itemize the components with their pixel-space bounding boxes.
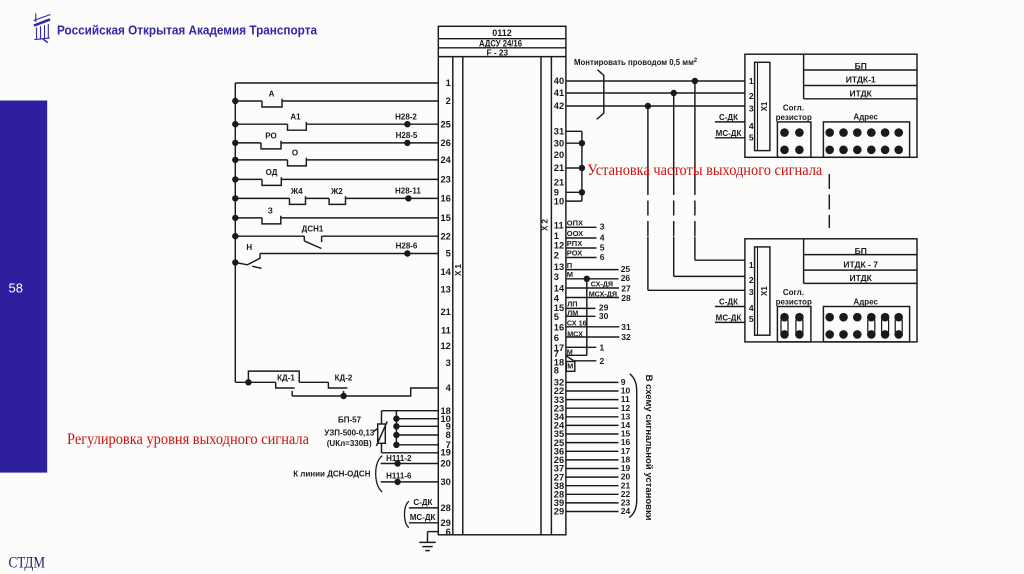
svg-text:ЛМ: ЛМ: [567, 309, 578, 318]
tie М rail down to pin7 row: [566, 279, 587, 356]
svg-text:2: 2: [446, 96, 451, 106]
wire row З to X1: [232, 215, 438, 224]
svg-text:4: 4: [749, 121, 754, 131]
module ИТДК - 7 outline: [745, 239, 917, 342]
svg-text:28: 28: [440, 503, 450, 513]
output row М wire 26: [566, 270, 631, 283]
node Н28-2: [395, 112, 417, 127]
svg-text:30: 30: [440, 477, 450, 487]
module ИТДК - 7 pin numbers: [749, 260, 754, 324]
svg-text:А: А: [269, 89, 275, 98]
svg-text:БП: БП: [855, 246, 867, 256]
svg-text:24: 24: [440, 155, 451, 165]
svg-text:11: 11: [441, 325, 451, 335]
module ИТДК - 7 header rows: [804, 239, 917, 284]
module ИТДК-1 pin numbers: [749, 76, 754, 143]
tie М diagonal stub: [566, 356, 573, 360]
svg-text:Согл.: Согл.: [783, 103, 804, 112]
tie wires pins 31 30 21 9 10: [566, 131, 585, 201]
svg-text:13: 13: [440, 284, 450, 294]
wire row Н changeover contact to pin 5: [232, 254, 438, 269]
svg-text:5: 5: [600, 242, 605, 252]
node Н28-5: [396, 131, 418, 146]
output row ЛП wire 29: [566, 300, 609, 313]
wire row ОД to X1: [232, 176, 438, 185]
svg-text:М: М: [567, 348, 573, 357]
ground symbol: [419, 542, 435, 550]
svg-text:29: 29: [554, 507, 564, 517]
X1 pin numbers: [440, 78, 451, 537]
svg-text:КД-2: КД-2: [335, 374, 353, 383]
svg-text:РО: РО: [265, 131, 276, 140]
svg-text:Адрес: Адрес: [853, 113, 878, 122]
svg-text:30: 30: [599, 311, 609, 321]
svg-text:30: 30: [554, 138, 564, 148]
svg-text:3: 3: [749, 104, 754, 114]
svg-text:ДСН1: ДСН1: [302, 225, 324, 234]
output row ОПХ wire 3: [566, 219, 605, 232]
svg-text:1: 1: [446, 78, 451, 88]
module ИТДК - 7 label Согл. резистор: [776, 288, 812, 307]
output bus wires 9-24: [566, 377, 631, 516]
svg-text:ОПХ: ОПХ: [567, 219, 583, 228]
node Н28-6: [396, 242, 418, 257]
svg-text:ООХ: ООХ: [567, 229, 583, 238]
svg-text:20: 20: [440, 459, 450, 469]
svg-text:О: О: [292, 148, 298, 157]
svg-text:Регулировка уровня выходного с: Регулировка уровня выходного сигнала: [67, 431, 309, 448]
drop wire 40 to ИТДК-7 pin 1: [692, 78, 745, 260]
svg-text:3: 3: [446, 358, 451, 368]
tie line pins 18-10-9-8-7: [393, 411, 438, 448]
module ИТДК-1 outline: [745, 54, 917, 157]
svg-text:2: 2: [554, 251, 559, 261]
module ИТДК-1 wire С-ДК pin 4: [715, 121, 745, 123]
connector X1 strip lines: [453, 57, 463, 535]
wire 42 to ИТДК-1 pin 3: [566, 105, 745, 107]
svg-text:13: 13: [554, 262, 564, 272]
svg-text:40: 40: [554, 76, 564, 86]
svg-text:21: 21: [554, 163, 564, 173]
svg-text:32: 32: [621, 332, 631, 342]
svg-text:5: 5: [446, 249, 451, 259]
module ИТДК - 7 wire С-ДК pin 4: [715, 306, 745, 308]
svg-text:СХ 16: СХ 16: [567, 318, 587, 327]
svg-text:МС-ДК: МС-ДК: [716, 129, 742, 138]
svg-text:4: 4: [600, 232, 605, 242]
bracket В схему сигнальной установки: [629, 374, 636, 518]
svg-text:МСХ-ДЯ: МСХ-ДЯ: [589, 289, 617, 298]
svg-text:ЛП: ЛП: [567, 300, 577, 309]
svg-text:В схему сигнальной установки: В схему сигнальной установки: [644, 375, 654, 521]
svg-text:1: 1: [749, 260, 754, 270]
varistor УЗП-500: [376, 422, 387, 447]
svg-text:11: 11: [554, 221, 564, 231]
svg-text:2: 2: [749, 91, 754, 101]
module ИТДК-1 DIP Адрес: [823, 122, 909, 157]
svg-text:СТДМ: СТДМ: [9, 555, 46, 572]
svg-text:Российская Открытая Академия Т: Российская Открытая Академия Транспорта: [57, 22, 318, 37]
svg-text:21: 21: [554, 177, 564, 187]
wire pin 19: [382, 452, 439, 454]
wire КД bus segment: [235, 379, 275, 385]
wire КД bypass branch: [248, 371, 299, 382]
wire row А1 to X1: [232, 121, 438, 130]
svg-text:Н28-11: Н28-11: [395, 186, 421, 195]
svg-text:1: 1: [600, 343, 605, 353]
output row СХ 16 wire 31: [566, 318, 631, 332]
module ИТДК - 7 DIP Адрес: [823, 307, 909, 342]
output row ЛМ wire 30: [566, 309, 609, 321]
wire Н111-2 to pin 20: [381, 460, 439, 466]
svg-text:М: М: [567, 270, 573, 279]
connector X2 strip lines: [541, 57, 551, 535]
svg-text:2: 2: [749, 275, 754, 285]
svg-text:Монтировать проводом 0,5 мм2: Монтировать проводом 0,5 мм2: [574, 57, 698, 67]
contact КД-2: [328, 382, 347, 399]
svg-text:15: 15: [440, 213, 450, 223]
svg-text:ИТДК - 7: ИТДК - 7: [843, 259, 878, 269]
left slide number bar: [0, 101, 47, 473]
svg-text:ИТДК: ИТДК: [850, 88, 873, 98]
svg-text:20: 20: [554, 150, 564, 160]
wire row РО to X1: [232, 140, 438, 149]
leader line varistor: [374, 429, 378, 432]
wire Н111-6 to pin 30: [381, 479, 439, 485]
drop wire 41 to ИТДК-7 pin 2: [671, 90, 746, 277]
svg-text:Адрес: Адрес: [853, 297, 878, 306]
svg-text:ОД: ОД: [266, 168, 278, 177]
module ИТДК - 7 DIP Согл. резистор: [777, 307, 811, 342]
module ИТДК-1 header rows: [804, 54, 917, 99]
block U0112 АДСУ 24/16 outline: [438, 26, 566, 535]
svg-text:КД-1: КД-1: [277, 374, 295, 383]
svg-text:З: З: [268, 206, 273, 215]
node Н28-11: [395, 186, 421, 201]
svg-text:5: 5: [554, 312, 559, 322]
svg-text:5: 5: [749, 314, 754, 324]
logo РОАТ icon: [34, 14, 51, 43]
svg-text:4: 4: [446, 383, 452, 393]
module ИТДК-1 DIP Согл. резистор: [777, 122, 811, 157]
module ИТДК - 7 wire МС-ДК pin 5: [715, 321, 745, 323]
svg-text:Н28-2: Н28-2: [395, 112, 417, 121]
wire 40 to ИТДК-1 pin 1: [566, 80, 745, 82]
svg-text:8: 8: [554, 366, 559, 376]
svg-text:6: 6: [446, 527, 451, 537]
svg-text:МС-ДК: МС-ДК: [716, 314, 742, 323]
svg-text:41: 41: [554, 88, 564, 98]
svg-text:21: 21: [440, 307, 450, 317]
svg-text:31: 31: [621, 322, 631, 332]
svg-text:28: 28: [621, 293, 631, 303]
svg-text:1: 1: [749, 76, 754, 86]
wire pin 6 to ground: [428, 532, 439, 543]
svg-text:26: 26: [440, 138, 450, 148]
svg-text:Согл.: Согл.: [783, 288, 804, 297]
svg-text:резистор: резистор: [776, 298, 812, 307]
svg-text:58: 58: [9, 280, 23, 295]
svg-text:14: 14: [554, 284, 565, 294]
output row ООХ wire 4: [566, 229, 605, 242]
svg-text:С-ДК: С-ДК: [719, 298, 738, 307]
output row РОХ wire 6: [566, 249, 605, 262]
svg-text:БП-57: БП-57: [338, 415, 362, 424]
svg-text:8: 8: [446, 430, 451, 440]
svg-text:К линии ДСН-ОДСН: К линии ДСН-ОДСН: [293, 469, 371, 478]
cable bundle marker: [597, 70, 604, 120]
svg-text:МС-ДК: МС-ДК: [410, 513, 436, 522]
svg-text:31: 31: [554, 127, 564, 137]
svg-text:Н: Н: [246, 243, 252, 252]
wire row А to X1: [232, 98, 438, 107]
svg-text:12: 12: [440, 341, 450, 351]
output row П wire 25: [566, 261, 631, 274]
svg-text:0112: 0112: [492, 28, 512, 38]
svg-text:3: 3: [554, 272, 559, 282]
left bus wire: [234, 83, 236, 382]
wire pin 18 to varistor: [382, 411, 439, 453]
svg-text:БП: БП: [855, 61, 867, 71]
output row СХ-ДЯ wire 27: [566, 279, 631, 293]
svg-text:Н28-6: Н28-6: [396, 242, 418, 251]
svg-text:Х1: Х1: [760, 101, 769, 111]
svg-text:А1: А1: [290, 113, 301, 122]
wire КД rail to pin 4: [292, 388, 438, 396]
X2 pin numbers: [554, 76, 565, 517]
svg-text:УЗП-500-0,13: УЗП-500-0,13: [324, 428, 375, 437]
svg-text:F - 23: F - 23: [486, 47, 508, 57]
output row М pin18 wire 2: [566, 356, 604, 371]
svg-text:25: 25: [440, 119, 450, 129]
svg-text:6: 6: [600, 252, 605, 262]
svg-text:Н28-5: Н28-5: [396, 131, 418, 140]
module ИТДК-1 connector X1: [755, 62, 770, 150]
wire МС-ДК to pin 29: [409, 522, 438, 524]
module ИТДК - 7 connector X1: [755, 247, 770, 335]
svg-text:22: 22: [440, 231, 450, 241]
svg-text:3: 3: [749, 287, 754, 297]
drop wire 42 to ИТДК-7 pin 3: [645, 103, 745, 290]
output row РПХ wire 5: [566, 239, 605, 252]
dashed link between ИТДК modules: [828, 174, 830, 228]
svg-text:27: 27: [621, 284, 631, 294]
output row МСХ-ДЯ wire 28: [566, 289, 631, 303]
svg-text:М: М: [567, 362, 573, 371]
brace С-ДК МС-ДК: [404, 501, 408, 528]
wire row ДСН1 break contact to pin 22: [232, 233, 438, 249]
brace К линии ДСН-ОДСН: [376, 456, 383, 492]
svg-text:РОХ: РОХ: [567, 249, 582, 258]
svg-text:3: 3: [600, 222, 605, 232]
wire 41 to ИТДК-1 pin 2: [566, 92, 745, 94]
svg-text:X 1: X 1: [454, 263, 463, 276]
svg-text:19: 19: [440, 448, 450, 458]
svg-text:10: 10: [554, 196, 564, 206]
svg-text:16: 16: [440, 194, 450, 204]
svg-text:14: 14: [440, 267, 451, 277]
svg-text:42: 42: [554, 101, 564, 111]
svg-text:(UКл=330В): (UКл=330В): [327, 439, 372, 448]
output row МСХ wire 32: [566, 329, 631, 342]
svg-text:С-ДК: С-ДК: [413, 498, 432, 507]
svg-text:X 2: X 2: [541, 218, 550, 231]
svg-text:12: 12: [554, 241, 564, 251]
svg-text:резистор: резистор: [776, 113, 812, 122]
svg-text:6: 6: [554, 333, 559, 343]
svg-text:Х1: Х1: [760, 286, 769, 296]
svg-text:ИТДК: ИТДК: [850, 273, 873, 283]
svg-text:Установка частоты выходного си: Установка частоты выходного сигнала: [587, 162, 822, 179]
wire row Ж4 Ж2 to X1: [232, 195, 438, 204]
svg-text:С-ДК: С-ДК: [719, 113, 738, 122]
svg-text:МСХ: МСХ: [567, 329, 583, 338]
module ИТДК-1 wire МС-ДК pin 5: [715, 137, 745, 139]
output row М pin17 wire 1: [566, 343, 605, 357]
svg-text:П: П: [567, 261, 572, 270]
module ИТДК-1 label Согл. резистор: [776, 103, 812, 122]
svg-text:16: 16: [554, 323, 564, 333]
svg-text:1: 1: [554, 231, 559, 241]
svg-text:СХ-ДЯ: СХ-ДЯ: [591, 279, 613, 288]
svg-text:24: 24: [621, 506, 631, 516]
svg-text:Ж4: Ж4: [290, 187, 303, 196]
wire row О to X1: [232, 157, 438, 166]
svg-text:23: 23: [440, 175, 450, 185]
svg-text:26: 26: [621, 273, 631, 283]
svg-text:Н111-6: Н111-6: [386, 471, 412, 480]
wire between КД contacts: [299, 381, 328, 383]
svg-text:5: 5: [749, 132, 754, 142]
svg-text:4: 4: [554, 293, 560, 303]
contact КД-1: [276, 382, 295, 396]
svg-text:2: 2: [600, 356, 605, 366]
svg-text:РПХ: РПХ: [567, 239, 582, 248]
svg-text:ИТДК-1: ИТДК-1: [846, 75, 876, 85]
wire to pin 1: [235, 82, 438, 84]
wire С-ДК to pin 28: [409, 507, 438, 509]
svg-text:4: 4: [749, 303, 754, 313]
svg-text:Ж2: Ж2: [330, 187, 343, 196]
